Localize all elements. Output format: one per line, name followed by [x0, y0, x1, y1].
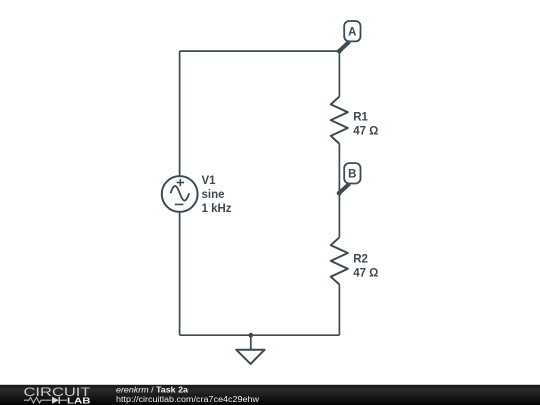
svg-text:47 Ω: 47 Ω [353, 268, 378, 280]
ground triangle [236, 350, 264, 364]
node B tail [339, 184, 349, 194]
svg-text:V1: V1 [202, 175, 217, 187]
svg-text:1 kHz: 1 kHz [202, 203, 232, 215]
node B junction dot [337, 191, 342, 196]
svg-text:http://circuitlab.com/cra7ce4c: http://circuitlab.com/cra7ce4c29ehw [116, 395, 259, 404]
node A junction dot [337, 49, 342, 54]
node A tail [339, 42, 349, 51]
voltage source V1 [162, 176, 198, 212]
svg-text:A: A [348, 26, 356, 38]
wire top horizontal [180, 50, 340, 52]
plus sign of V1 [177, 182, 184, 184]
svg-text:47 Ω: 47 Ω [353, 126, 378, 138]
svg-text:R1: R1 [353, 112, 368, 124]
svg-text:sine: sine [202, 189, 225, 201]
wire right upper (A to R1) [338, 51, 340, 96]
wire bottom horizontal [180, 334, 340, 336]
wire left upper [179, 51, 181, 176]
node A label box [344, 21, 360, 41]
node B label box [344, 163, 360, 183]
ground stem [250, 335, 252, 350]
wire right middle (R1 to R2) [338, 144, 340, 238]
wire right lower (R2 to bottom) [338, 285, 340, 336]
svg-text:R2: R2 [353, 254, 368, 266]
svg-text:LAB: LAB [67, 396, 91, 405]
minus sign of V1 [175, 203, 184, 205]
resistor R1 [331, 97, 348, 144]
ground junction dot [248, 333, 253, 338]
wire left lower [179, 212, 181, 336]
resistor R2 [331, 237, 348, 284]
svg-text:erenkrm / Task 2a: erenkrm / Task 2a [116, 385, 189, 394]
logo diode [52, 397, 59, 404]
svg-text:B: B [348, 168, 356, 180]
logo squiggle resistor [24, 397, 52, 403]
